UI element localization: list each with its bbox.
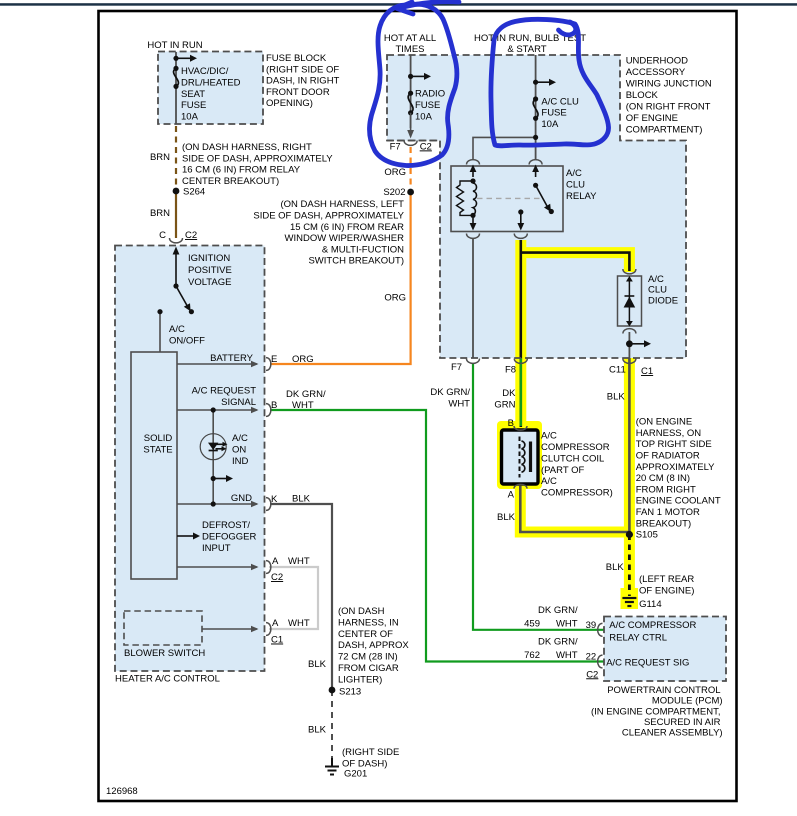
svg-text:CLU: CLU bbox=[566, 179, 585, 190]
blower switch box bbox=[124, 611, 202, 645]
svg-text:& MULTI-FUCTION: & MULTI-FUCTION bbox=[322, 244, 404, 255]
highlight coil A BLK to S105 bbox=[520, 486, 629, 532]
svg-text:(ON ENGINE: (ON ENGINE bbox=[636, 417, 692, 428]
wire ORG dashed F7 to S202 bbox=[410, 147, 412, 192]
svg-text:G114: G114 bbox=[639, 599, 662, 610]
svg-text:C11: C11 bbox=[609, 365, 626, 376]
pcm fill bbox=[604, 617, 726, 682]
svg-text:SIDE OF DASH, APPROXIMATELY: SIDE OF DASH, APPROXIMATELY bbox=[253, 211, 404, 222]
svg-text:BLK: BLK bbox=[497, 512, 516, 523]
svg-text:B: B bbox=[508, 418, 514, 429]
svg-text:CLUTCH COIL: CLUTCH COIL bbox=[541, 453, 604, 464]
wire WHT loop C2A-C1A bbox=[269, 567, 318, 629]
svg-text:RELAY: RELAY bbox=[566, 191, 597, 202]
ground G201 bbox=[325, 758, 339, 775]
wire ORG S202 to E pin bbox=[270, 192, 411, 364]
svg-text:10A: 10A bbox=[415, 112, 433, 123]
svg-text:(ON RIGHT FRONT: (ON RIGHT FRONT bbox=[626, 101, 711, 112]
svg-text:A: A bbox=[272, 618, 279, 629]
svg-text:DEFOGGER: DEFOGGER bbox=[202, 531, 257, 542]
wire relay coil pin down to F7 bbox=[472, 239, 474, 358]
connector arcs F7 F8 C11 at box bottom bbox=[467, 359, 480, 364]
wire branch to relay coil pin bbox=[473, 137, 536, 160]
svg-text:39: 39 bbox=[586, 620, 597, 631]
svg-text:A/C: A/C bbox=[169, 324, 185, 335]
clutch coil internals bbox=[519, 437, 521, 478]
dot on gnd wire bbox=[211, 501, 216, 506]
svg-text:(RIGHT SIDE: (RIGHT SIDE bbox=[342, 747, 399, 758]
svg-text:APPROXIMATELY: APPROXIMATELY bbox=[636, 462, 715, 473]
svg-text:RADIO: RADIO bbox=[415, 89, 445, 100]
svg-text:F7: F7 bbox=[451, 362, 462, 373]
svg-text:A/C REQUEST SIG: A/C REQUEST SIG bbox=[606, 657, 689, 668]
svg-text:S202: S202 bbox=[383, 187, 405, 198]
wire radio fuse vertical bbox=[410, 55, 412, 128]
svg-text:ON: ON bbox=[232, 444, 246, 455]
svg-text:(ON DASH HARNESS, LEFT: (ON DASH HARNESS, LEFT bbox=[280, 199, 404, 210]
heater pin connector arcs bbox=[266, 358, 271, 371]
clutch coil connector arcs bbox=[514, 426, 527, 430]
svg-text:15 CM (6 IN) FROM REAR: 15 CM (6 IN) FROM REAR bbox=[290, 222, 404, 233]
svg-text:C1: C1 bbox=[271, 635, 283, 646]
svg-text:(LEFT REAR: (LEFT REAR bbox=[639, 574, 694, 585]
fuse RADIO: dots arrow squiggle down-arrow bbox=[408, 74, 413, 116]
svg-text:459: 459 bbox=[524, 619, 540, 630]
pcm connector arcs bbox=[598, 623, 603, 636]
svg-text:10A: 10A bbox=[541, 119, 559, 130]
svg-text:B: B bbox=[271, 400, 277, 411]
svg-text:(ON DASH HARNESS, RIGHT: (ON DASH HARNESS, RIGHT bbox=[182, 142, 312, 153]
svg-text:SIGNAL: SIGNAL bbox=[221, 397, 256, 408]
svg-text:C2: C2 bbox=[271, 572, 283, 583]
svg-text:WHT: WHT bbox=[288, 618, 310, 629]
svg-text:CLU: CLU bbox=[648, 285, 667, 296]
highlight C11 BLK down to G114 bbox=[624, 358, 635, 600]
heater a/c control fill bbox=[115, 246, 265, 672]
fuse HVAC: dots arrow squiggle bbox=[173, 56, 178, 89]
svg-text:WHT: WHT bbox=[448, 398, 470, 409]
svg-text:A/C: A/C bbox=[566, 168, 582, 179]
wire a/c request B bbox=[177, 409, 257, 411]
svg-text:RELAY CTRL: RELAY CTRL bbox=[609, 632, 667, 643]
svg-text:CENTER OF: CENTER OF bbox=[338, 629, 393, 640]
svg-text:HARNESS, ON: HARNESS, ON bbox=[636, 428, 702, 439]
svg-text:ON/OFF: ON/OFF bbox=[169, 335, 205, 346]
svg-text:UNDERHOOD: UNDERHOOD bbox=[626, 55, 688, 66]
connector arcs relay top pins bbox=[467, 160, 480, 165]
svg-text:A/C: A/C bbox=[648, 274, 664, 285]
svg-text:BLOCK: BLOCK bbox=[626, 90, 659, 101]
svg-text:BRN: BRN bbox=[150, 208, 170, 219]
svg-text:A/C: A/C bbox=[541, 476, 557, 487]
svg-text:IGNITION: IGNITION bbox=[188, 253, 230, 264]
svg-text:FRONT DOOR: FRONT DOOR bbox=[266, 87, 330, 98]
svg-text:10A: 10A bbox=[181, 112, 199, 123]
wire blower A C1 bbox=[202, 628, 257, 630]
pen circle left (HOT AT ALL TIMES) bbox=[369, 4, 456, 165]
svg-text:FAN 1 MOTOR: FAN 1 MOTOR bbox=[636, 507, 700, 518]
wire branch to diode (in yellow) bbox=[521, 253, 630, 271]
svg-text:HVAC/DIC/: HVAC/DIC/ bbox=[181, 66, 229, 77]
svg-text:CLEANER ASSEMBLY): CLEANER ASSEMBLY) bbox=[622, 728, 723, 739]
svg-text:SOLID: SOLID bbox=[144, 433, 173, 444]
svg-text:20 CM (8 IN): 20 CM (8 IN) bbox=[636, 473, 690, 484]
highlight clutch coil box bbox=[497, 421, 542, 489]
svg-text:(PART OF: (PART OF bbox=[541, 465, 584, 476]
svg-text:A/C CLU: A/C CLU bbox=[541, 96, 579, 107]
svg-text:BRN: BRN bbox=[150, 152, 170, 163]
svg-text:ORG: ORG bbox=[384, 293, 406, 304]
wire A/C CLU fuse vertical bbox=[535, 55, 537, 160]
svg-text:DK GRN/: DK GRN/ bbox=[286, 389, 326, 400]
underhood junction block fill bbox=[387, 55, 686, 358]
fuse block box bbox=[158, 52, 263, 125]
svg-text:S264: S264 bbox=[183, 187, 205, 198]
svg-text:DIODE: DIODE bbox=[648, 295, 678, 306]
svg-text:HOT AT ALL: HOT AT ALL bbox=[384, 33, 436, 44]
svg-text:DRL/HEATED: DRL/HEATED bbox=[181, 77, 241, 88]
relay internals: up arrows bbox=[472, 171, 474, 177]
svg-text:WHT: WHT bbox=[292, 400, 314, 411]
svg-text:& START: & START bbox=[507, 44, 546, 55]
svg-text:STATE: STATE bbox=[143, 444, 172, 455]
wire battery E bbox=[177, 363, 257, 365]
svg-text:FUSE: FUSE bbox=[415, 100, 440, 111]
wire DK GRN/WHT F7 to PCM 39 bbox=[473, 364, 604, 630]
heater a/c control box bbox=[115, 246, 265, 672]
svg-text:762: 762 bbox=[524, 650, 540, 661]
connector F7 C2 under radio fuse bbox=[404, 141, 417, 146]
page frame bbox=[99, 11, 737, 801]
highlight relay->F8->coil B bbox=[515, 240, 526, 428]
heater ignition switch arm bbox=[176, 286, 187, 306]
wire led branch bbox=[212, 410, 214, 504]
splice S213 bbox=[329, 687, 336, 694]
underhood junction block box bbox=[387, 55, 686, 358]
wire BLK coil A to S105 bbox=[520, 486, 629, 532]
svg-text:VOLTAGE: VOLTAGE bbox=[188, 277, 231, 288]
relay coil bbox=[470, 178, 475, 183]
svg-text:(IN ENGINE COMPARTMENT,: (IN ENGINE COMPARTMENT, bbox=[591, 706, 721, 717]
diode out dot and arrow bbox=[626, 340, 633, 347]
wire DK GRN under F8 over yellow bbox=[520, 358, 522, 426]
svg-text:SEAT: SEAT bbox=[181, 89, 205, 100]
pen circle right (HOT IN RUN BULB TEST) bbox=[491, 19, 609, 145]
a/c clu relay box bbox=[451, 166, 563, 232]
svg-text:A/C COMPRESSOR: A/C COMPRESSOR bbox=[609, 620, 696, 631]
fuse block box fill bbox=[158, 52, 263, 125]
svg-text:DASH, APPROX: DASH, APPROX bbox=[338, 640, 409, 651]
svg-text:DASH, IN RIGHT: DASH, IN RIGHT bbox=[266, 76, 340, 87]
svg-text:SWITCH BREAKOUT): SWITCH BREAKOUT) bbox=[308, 256, 404, 267]
arrows into connectors at heater pins bbox=[251, 361, 259, 368]
svg-text:GND: GND bbox=[231, 493, 252, 504]
svg-text:(RIGHT SIDE OF: (RIGHT SIDE OF bbox=[266, 64, 339, 75]
splice dot on request wire bbox=[211, 407, 216, 412]
svg-text:BLOWER SWITCH: BLOWER SWITCH bbox=[124, 648, 205, 659]
svg-text:BLK: BLK bbox=[292, 494, 311, 505]
svg-text:FROM CIGAR: FROM CIGAR bbox=[338, 663, 399, 674]
wire BRN dashed fuse to S264 bbox=[175, 126, 177, 191]
connector C under BRN bbox=[170, 238, 183, 243]
wire BRN S264 to C bbox=[175, 191, 177, 238]
pcm box bbox=[604, 617, 726, 682]
svg-text:G201: G201 bbox=[344, 769, 367, 780]
svg-text:ACCESSORY: ACCESSORY bbox=[626, 67, 686, 78]
dot + arrow under LED bbox=[211, 476, 216, 481]
svg-text:DK GRN/: DK GRN/ bbox=[430, 387, 470, 398]
svg-text:A/C: A/C bbox=[232, 433, 248, 444]
svg-text:126968: 126968 bbox=[106, 786, 138, 797]
relay resistor bbox=[457, 181, 474, 215]
svg-text:GRN: GRN bbox=[494, 399, 515, 410]
wire DK GRN/WHT B pin to PCM 22 bbox=[270, 410, 604, 662]
diode internals bbox=[628, 279, 630, 324]
svg-text:WHT: WHT bbox=[556, 650, 578, 661]
a/c clu diode box bbox=[618, 276, 642, 326]
svg-text:CENTER BREAKOUT): CENTER BREAKOUT) bbox=[182, 176, 279, 187]
wire BLK K pin to S213 bbox=[270, 504, 332, 690]
svg-text:C2: C2 bbox=[420, 141, 432, 152]
svg-text:DEFROST/: DEFROST/ bbox=[202, 520, 250, 531]
svg-text:K: K bbox=[271, 494, 278, 505]
svg-text:16 CM (6 IN) FROM RELAY: 16 CM (6 IN) FROM RELAY bbox=[182, 165, 301, 176]
svg-text:HARNESS, IN: HARNESS, IN bbox=[338, 617, 399, 628]
svg-text:COMPARTMENT): COMPARTMENT) bbox=[626, 124, 703, 135]
svg-text:ORG: ORG bbox=[384, 167, 406, 178]
radio fuse box bottom edge bbox=[387, 140, 440, 142]
svg-text:C: C bbox=[159, 230, 166, 241]
svg-text:BLK: BLK bbox=[606, 562, 625, 573]
svg-text:BLK: BLK bbox=[308, 659, 327, 670]
svg-text:WIRING JUNCTION: WIRING JUNCTION bbox=[626, 78, 712, 89]
svg-text:C1: C1 bbox=[641, 366, 653, 377]
svg-text:(ON DASH: (ON DASH bbox=[338, 606, 385, 617]
svg-text:WHT: WHT bbox=[288, 556, 310, 567]
svg-text:ORG: ORG bbox=[292, 354, 314, 365]
svg-text:INPUT: INPUT bbox=[202, 543, 231, 554]
solid state box bbox=[131, 352, 177, 579]
svg-text:S105: S105 bbox=[636, 530, 658, 541]
wire BLK dashed S213 to G201 bbox=[331, 690, 333, 765]
svg-text:OPENING): OPENING) bbox=[266, 98, 313, 109]
svg-text:MODULE (PCM): MODULE (PCM) bbox=[652, 696, 723, 707]
highlight relay branch to diode bbox=[521, 253, 630, 272]
svg-text:DK GRN/: DK GRN/ bbox=[538, 636, 578, 647]
svg-text:LIGHTER): LIGHTER) bbox=[338, 674, 382, 685]
svg-text:BLK: BLK bbox=[308, 725, 327, 736]
wire diode bottom to C11 bbox=[628, 332, 630, 358]
svg-text:SECURED IN AIR: SECURED IN AIR bbox=[644, 717, 721, 728]
wire HVAC fuse vertical bbox=[175, 52, 177, 124]
LED a/c on ind bbox=[200, 434, 226, 460]
splice S105 bbox=[626, 531, 633, 538]
svg-text:TIMES: TIMES bbox=[395, 44, 424, 55]
svg-text:A/C: A/C bbox=[541, 431, 557, 442]
defrost arrow bbox=[177, 535, 193, 537]
svg-text:F8: F8 bbox=[505, 365, 516, 376]
svg-text:C2: C2 bbox=[586, 669, 598, 680]
svg-text:E: E bbox=[271, 354, 277, 365]
ground G114 bbox=[622, 598, 636, 606]
svg-text:HEATER A/C CONTROL: HEATER A/C CONTROL bbox=[115, 674, 220, 685]
relay switch arm bbox=[533, 183, 538, 188]
clutch coil box bbox=[502, 430, 539, 484]
svg-text:F7: F7 bbox=[390, 141, 401, 152]
svg-text:OF RADIATOR: OF RADIATOR bbox=[636, 451, 700, 462]
highlight G114 ground bbox=[621, 588, 639, 609]
svg-text:POSITIVE: POSITIVE bbox=[188, 265, 232, 276]
svg-text:A: A bbox=[272, 556, 279, 567]
svg-text:C2: C2 bbox=[185, 230, 197, 241]
diode connector arcs bbox=[623, 269, 636, 274]
svg-text:FUSE BLOCK: FUSE BLOCK bbox=[266, 53, 327, 64]
relay link dashed bbox=[477, 197, 543, 199]
svg-text:COMPRESSOR: COMPRESSOR bbox=[541, 442, 610, 453]
splice S202 bbox=[407, 189, 414, 196]
svg-text:OF ENGINE: OF ENGINE bbox=[626, 113, 678, 124]
svg-text:SIDE OF DASH, APPROXIMATELY: SIDE OF DASH, APPROXIMATELY bbox=[182, 153, 333, 164]
wire BLK C11 to S105 (in yellow) bbox=[628, 358, 631, 535]
connector arcs relay bottom pins bbox=[467, 234, 480, 239]
svg-text:BREAKOUT): BREAKOUT) bbox=[636, 518, 691, 529]
svg-text:POWERTRAIN CONTROL: POWERTRAIN CONTROL bbox=[607, 685, 720, 696]
svg-text:FUSE: FUSE bbox=[541, 108, 566, 119]
fuse A/C CLU: dots arrow squiggle bbox=[533, 80, 538, 140]
svg-text:72 CM (28 IN): 72 CM (28 IN) bbox=[338, 652, 398, 663]
svg-text:COMPRESSOR): COMPRESSOR) bbox=[541, 488, 613, 499]
top border bar bbox=[0, 3, 797, 5]
svg-text:WHT: WHT bbox=[556, 619, 578, 630]
svg-text:BLK: BLK bbox=[607, 392, 626, 403]
wire relay sw out to coil B (in yellow) bbox=[519, 240, 522, 427]
svg-text:TOP RIGHT SIDE: TOP RIGHT SIDE bbox=[636, 439, 712, 450]
wire gnd K bbox=[177, 503, 257, 505]
svg-text:WINDOW WIPER/WASHER: WINDOW WIPER/WASHER bbox=[285, 233, 405, 244]
a/c on/off wire bbox=[159, 312, 161, 352]
svg-text:DK GRN/: DK GRN/ bbox=[538, 605, 578, 616]
svg-text:A: A bbox=[508, 489, 515, 500]
splice S264 bbox=[173, 188, 180, 195]
svg-text:HOT IN RUN: HOT IN RUN bbox=[147, 40, 202, 51]
relay switch output pin bbox=[518, 209, 523, 214]
svg-text:BATTERY: BATTERY bbox=[210, 353, 254, 364]
svg-text:S213: S213 bbox=[339, 687, 361, 698]
heater ignition arrow up bbox=[175, 253, 177, 286]
svg-text:ENGINE COOLANT: ENGINE COOLANT bbox=[636, 496, 721, 507]
svg-text:FROM RIGHT: FROM RIGHT bbox=[636, 484, 696, 495]
svg-text:DK: DK bbox=[502, 388, 516, 399]
wire A C2 bbox=[177, 566, 257, 568]
svg-text:22: 22 bbox=[586, 652, 597, 663]
svg-text:OF ENGINE): OF ENGINE) bbox=[639, 585, 694, 596]
pen arrow tail bbox=[401, 2, 459, 8]
relay coil down arrow bbox=[472, 218, 474, 224]
svg-text:FUSE: FUSE bbox=[181, 100, 206, 111]
svg-text:A/C REQUEST: A/C REQUEST bbox=[192, 385, 257, 396]
wire BLK dashed S105 to G114 (in yellow) bbox=[628, 535, 631, 597]
svg-text:IND: IND bbox=[232, 456, 249, 467]
